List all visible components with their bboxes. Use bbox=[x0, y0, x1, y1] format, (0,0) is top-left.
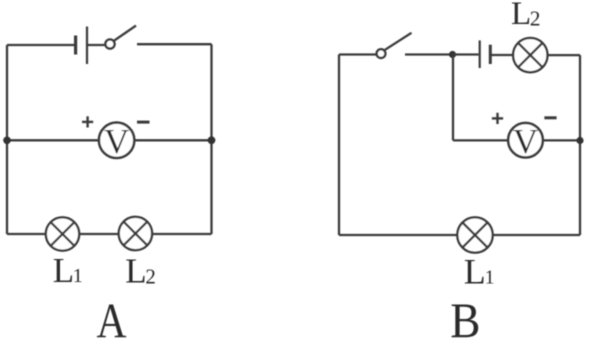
wire A top-left segment bbox=[7, 44, 75, 46]
plus sign of voltmeter U2 bbox=[492, 113, 503, 124]
svg-text:V: V bbox=[513, 122, 538, 161]
wire switch to node bbox=[405, 53, 453, 55]
svg-text:L: L bbox=[53, 251, 74, 290]
wire A middle-left to voltmeter bbox=[7, 139, 99, 141]
wire B top-left segment bbox=[339, 53, 376, 55]
wire between lamps bbox=[79, 233, 119, 235]
voltmeter U2 circle bbox=[508, 123, 543, 158]
wire voltmeter branch vertical bbox=[452, 55, 454, 141]
switch S2 pivot bbox=[377, 49, 386, 58]
wire lamp L2 to right corner bbox=[548, 54, 581, 56]
wire A bottom-left segment bbox=[7, 233, 46, 235]
wire A top-right segment bbox=[137, 43, 212, 45]
node A left junction bbox=[3, 137, 11, 145]
wire node to battery B2 bbox=[453, 53, 479, 55]
switch S2 blade bbox=[385, 33, 412, 50]
battery B2 short plate (negative) bbox=[489, 45, 492, 64]
node B right junction bbox=[576, 137, 583, 144]
wire B right side bbox=[579, 55, 581, 235]
battery B2 long plate (positive) bbox=[479, 40, 481, 68]
battery B1 long plate (positive) bbox=[86, 27, 88, 65]
svg-text:A: A bbox=[97, 292, 127, 339]
voltmeter U1 circle bbox=[99, 123, 134, 158]
wire voltmeter to right node bbox=[134, 139, 211, 141]
wire branch to voltmeter U2 bbox=[453, 139, 508, 141]
node B top junction bbox=[449, 51, 456, 58]
lamp L1 (circuit B) bbox=[457, 217, 492, 252]
wire A right side bbox=[210, 44, 212, 234]
wire voltmeter U2 to right node bbox=[543, 139, 580, 141]
svg-text:L: L bbox=[511, 0, 531, 32]
svg-text:1: 1 bbox=[73, 265, 83, 287]
lamp L2 (circuit A) bbox=[119, 217, 152, 250]
wire B left side bbox=[338, 55, 340, 236]
svg-text:V: V bbox=[104, 122, 129, 161]
wire battery to lamp L2 bbox=[492, 54, 514, 56]
switch S1 pivot bbox=[105, 39, 114, 48]
wire B bottom-left segment bbox=[339, 234, 457, 236]
minus sign of voltmeter U1 bbox=[137, 121, 150, 124]
plus sign of voltmeter U1 bbox=[82, 116, 93, 127]
node A right junction bbox=[208, 136, 216, 144]
svg-text:L: L bbox=[125, 251, 146, 290]
switch S1 blade bbox=[114, 26, 136, 41]
lamp L1 (circuit A) bbox=[46, 217, 79, 250]
svg-text:L: L bbox=[464, 252, 486, 292]
wire B bottom-right segment bbox=[493, 234, 580, 236]
battery B1 short plate (negative) bbox=[74, 36, 77, 55]
lamp L2 (circuit B) bbox=[513, 38, 547, 72]
svg-text:B: B bbox=[450, 292, 480, 339]
svg-text:2: 2 bbox=[145, 265, 156, 289]
wire A left side bbox=[6, 45, 8, 234]
wire A bottom-right segment bbox=[152, 233, 211, 235]
svg-text:2: 2 bbox=[530, 7, 541, 31]
minus sign of voltmeter U2 bbox=[544, 116, 556, 119]
svg-text:1: 1 bbox=[485, 268, 495, 289]
wire battery to switch S1 bbox=[88, 44, 105, 46]
